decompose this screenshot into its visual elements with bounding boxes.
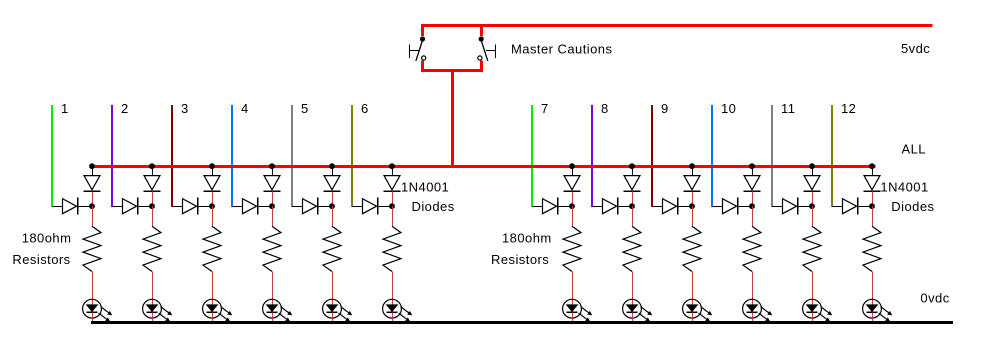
wire cathode lead col 9: [692, 191, 694, 206]
wire anode col 3: [212, 166, 214, 176]
wire led-to-0vdc col 2: [152, 312, 154, 322]
svg-text:2: 2: [121, 101, 129, 116]
wire node-to-resistor col 6: [392, 206, 394, 226]
wire anode col 11: [812, 166, 814, 176]
svg-text:5: 5: [301, 101, 309, 116]
wire cathode lead col 8: [632, 191, 634, 206]
wire led-to-0vdc col 12: [872, 312, 874, 322]
wire input-to-diode col 12: [832, 206, 843, 208]
wire led-to-0vdc col 8: [632, 312, 634, 322]
wire input-to-diode col 10: [712, 206, 723, 208]
wire anode col 7: [572, 166, 574, 176]
wire SW2 bottom stub: [480, 60, 483, 72]
svg-text:1: 1: [61, 101, 69, 116]
wire led-to-0vdc col 10: [752, 312, 754, 322]
junction node dot col 4: [269, 203, 275, 209]
label 1N4001 (left bank): [401, 179, 449, 194]
wire led-to-0vdc col 9: [692, 312, 694, 322]
diode 1N4001 D11b (horizontal): [783, 198, 813, 215]
diode 1N4001 D3b (horizontal): [183, 198, 213, 215]
junction bus dot col 2: [149, 163, 155, 169]
wire input 4 (colored): [231, 105, 233, 207]
label Master Cautions: [511, 41, 612, 56]
svg-text:5vdc: 5vdc: [901, 41, 930, 56]
wire SW2 top stub: [480, 24, 483, 36]
LED LED3: [203, 299, 222, 318]
junction bus dot col 10: [749, 163, 755, 169]
wire input 3 (colored): [171, 105, 173, 207]
wire node-to-resistor col 1: [92, 206, 94, 226]
LED LED12: [863, 299, 882, 318]
wire led-to-0vdc col 3: [212, 312, 214, 322]
diode 1N4001 D8b (horizontal): [603, 198, 633, 215]
wire node-to-resistor col 9: [692, 206, 694, 226]
svg-text:0vdc: 0vdc: [920, 291, 949, 306]
node label 10: [721, 101, 736, 116]
wire input 5 (colored): [291, 105, 293, 207]
junction node dot col 2: [149, 203, 155, 209]
wire anode col 4: [272, 166, 274, 176]
wire input-to-diode col 2: [112, 206, 123, 208]
node label 4: [241, 101, 249, 116]
wire cathode lead col 10: [752, 191, 754, 206]
label Diodes (right bank): [891, 199, 934, 214]
wire input 10 (colored): [711, 105, 713, 207]
wire cathode lead col 5: [332, 191, 334, 206]
node ALL label: [902, 141, 926, 156]
wire node-to-resistor col 3: [212, 206, 214, 226]
diode 1N4001 D11a (vertical): [804, 176, 821, 192]
resistor 180ohm R7: [563, 226, 581, 271]
wire cathode lead col 7: [572, 191, 574, 206]
label Resistors (left bank): [12, 252, 70, 267]
wire resistor-to-led col 11: [812, 272, 814, 305]
LED arrows col 6: [399, 307, 413, 322]
svg-text:12: 12: [841, 101, 856, 116]
wire anode col 9: [692, 166, 694, 176]
wire led-to-0vdc col 6: [392, 312, 394, 322]
diode 1N4001 D8a (vertical): [624, 176, 641, 192]
label Resistors (right bank): [491, 252, 549, 267]
LED arrows col 5: [339, 307, 353, 322]
wire input 6 (colored): [351, 105, 353, 207]
LED arrows col 4: [279, 307, 293, 322]
svg-text:180ohm: 180ohm: [22, 231, 72, 246]
wire led-to-0vdc col 4: [272, 312, 274, 322]
wire input-to-diode col 3: [172, 206, 183, 208]
wire node-to-resistor col 2: [152, 206, 154, 226]
wire resistor-to-led col 9: [692, 272, 694, 305]
wire node-to-resistor col 4: [272, 206, 274, 226]
diode 1N4001 D9b (horizontal): [663, 198, 693, 215]
wire ALL bus (red): [91, 165, 876, 168]
wire cathode lead col 4: [272, 191, 274, 206]
junction bus dot col 8: [629, 163, 635, 169]
wire node-to-resistor col 10: [752, 206, 754, 226]
junction bus dot col 3: [209, 163, 215, 169]
wire input 12 (colored): [831, 105, 833, 207]
LED LED5: [323, 299, 342, 318]
node label 12: [841, 101, 856, 116]
diode 1N4001 D5b (horizontal): [303, 198, 333, 215]
wire switch bottom connector: [421, 69, 483, 72]
wire anode col 8: [632, 166, 634, 176]
wire input 9 (colored): [651, 105, 653, 207]
diode 1N4001 D12a (vertical): [864, 176, 881, 192]
junction bus dot col 4: [269, 163, 275, 169]
wire cathode lead col 2: [152, 191, 154, 206]
resistor 180ohm R8: [623, 226, 641, 271]
svg-text:1N4001: 1N4001: [401, 179, 449, 194]
junction node dot col 11: [809, 203, 815, 209]
wire input-to-diode col 6: [352, 206, 363, 208]
svg-text:Resistors: Resistors: [12, 252, 70, 267]
LED arrows col 3: [219, 307, 233, 322]
resistor 180ohm R3: [203, 226, 221, 271]
wire input-to-diode col 8: [592, 206, 603, 208]
junction bus dot col 1: [89, 163, 95, 169]
junction node dot col 9: [689, 203, 695, 209]
wire input 1 (colored): [51, 105, 53, 207]
junction node dot col 12: [869, 203, 875, 209]
wire led-to-0vdc col 1: [92, 312, 94, 322]
node label 11: [781, 101, 795, 116]
junction node dot col 6: [389, 203, 395, 209]
diode 1N4001 D7b (horizontal): [543, 198, 573, 215]
wire node-to-resistor col 11: [812, 206, 814, 226]
wire anode col 5: [332, 166, 334, 176]
wire input 8 (colored): [591, 105, 593, 207]
wire input-to-diode col 5: [292, 206, 303, 208]
resistor 180ohm R9: [683, 226, 701, 271]
diode 1N4001 D1b (horizontal): [63, 198, 93, 215]
diode 1N4001 D6b (horizontal): [363, 198, 393, 215]
junction bus dot col 6: [389, 163, 395, 169]
node label 9: [661, 101, 669, 116]
junction SW1 top contact dot: [420, 36, 425, 41]
diode 1N4001 D12b (horizontal): [843, 198, 873, 215]
wire led-to-0vdc col 11: [812, 312, 814, 322]
wire led-to-0vdc col 7: [572, 312, 574, 322]
wire resistor-to-led col 4: [272, 272, 274, 305]
wire resistor-to-led col 12: [872, 272, 874, 305]
diode 1N4001 D2a (vertical): [144, 176, 161, 192]
resistor 180ohm R1: [83, 226, 101, 271]
junction bus dot col 5: [329, 163, 335, 169]
resistor 180ohm R12: [863, 226, 881, 271]
diode 1N4001 D10b (horizontal): [723, 198, 753, 215]
resistor 180ohm R2: [143, 226, 161, 271]
diode 1N4001 D1a (vertical): [84, 176, 101, 192]
wire resistor-to-led col 7: [572, 272, 574, 305]
node label 8: [601, 101, 609, 116]
svg-text:Master Cautions: Master Cautions: [511, 41, 612, 56]
svg-text:11: 11: [781, 101, 795, 116]
LED arrows col 12: [879, 307, 893, 322]
label Diodes (left bank): [412, 199, 455, 214]
node label 5: [301, 101, 309, 116]
junction node dot col 1: [89, 203, 95, 209]
diode 1N4001 D4a (vertical): [264, 176, 281, 192]
wire cathode lead col 1: [92, 191, 94, 206]
node label 1: [61, 101, 69, 116]
wire node-to-resistor col 5: [332, 206, 334, 226]
wire input-to-diode col 4: [232, 206, 243, 208]
wire resistor-to-led col 1: [92, 272, 94, 305]
LED arrows col 1: [99, 307, 113, 322]
LED LED2: [143, 299, 162, 318]
LED LED9: [683, 299, 702, 318]
diode 1N4001 D9a (vertical): [684, 176, 701, 192]
wire anode col 6: [392, 166, 394, 176]
wire resistor-to-led col 8: [632, 272, 634, 305]
LED LED7: [563, 299, 582, 318]
wire resistor-to-led col 5: [332, 272, 334, 305]
wire resistor-to-led col 10: [752, 272, 754, 305]
svg-text:Resistors: Resistors: [491, 252, 549, 267]
LED LED8: [623, 299, 642, 318]
node label 7: [541, 101, 549, 116]
LED LED6: [383, 299, 402, 318]
svg-text:Diodes: Diodes: [412, 199, 455, 214]
svg-text:4: 4: [241, 101, 249, 116]
label 180ohm (left bank): [22, 231, 72, 246]
junction node dot col 10: [749, 203, 755, 209]
svg-text:7: 7: [541, 101, 549, 116]
wire input 2 (colored): [111, 105, 113, 207]
svg-text:3: 3: [181, 101, 189, 116]
junction node dot col 3: [209, 203, 215, 209]
svg-text:8: 8: [601, 101, 609, 116]
junction bus dot col 9: [689, 163, 695, 169]
switch SW1 (master caution): [410, 41, 426, 61]
junction node dot col 5: [329, 203, 335, 209]
switch SW2 (master caution): [478, 41, 496, 61]
wire SW1 bottom stub: [421, 60, 424, 72]
LED arrows col 2: [159, 307, 173, 322]
diode 1N4001 D10a (vertical): [744, 176, 761, 192]
node label 3: [181, 101, 189, 116]
junction SW2 top contact dot: [479, 36, 484, 41]
wire input 11 (colored): [771, 105, 773, 207]
diode 1N4001 D5a (vertical): [324, 176, 341, 192]
junction bus dot col 7: [569, 163, 575, 169]
diode 1N4001 D2b (horizontal): [123, 198, 153, 215]
wire anode col 12: [872, 166, 874, 176]
LED LED10: [743, 299, 762, 318]
wire anode col 10: [752, 166, 754, 176]
wire input-to-diode col 9: [652, 206, 663, 208]
wire center drop to bus: [451, 69, 454, 168]
svg-text:9: 9: [661, 101, 669, 116]
wire cathode lead col 6: [392, 191, 394, 206]
resistor 180ohm R5: [323, 226, 341, 271]
resistor 180ohm R6: [383, 226, 401, 271]
wire input-to-diode col 1: [52, 206, 63, 208]
diode 1N4001 D3a (vertical): [204, 176, 221, 192]
wire node-to-resistor col 12: [872, 206, 874, 226]
wire led-to-0vdc col 5: [332, 312, 334, 322]
wire resistor-to-led col 6: [392, 272, 394, 305]
diode 1N4001 D4b (horizontal): [243, 198, 273, 215]
node 5vdc label: [901, 41, 930, 56]
svg-text:6: 6: [361, 101, 369, 116]
svg-text:180ohm: 180ohm: [502, 231, 552, 246]
wire input 7 (colored): [531, 105, 533, 207]
wire input-to-diode col 11: [772, 206, 783, 208]
junction bus dot col 12: [869, 163, 875, 169]
junction node dot col 7: [569, 203, 575, 209]
LED arrows col 9: [699, 307, 713, 322]
label 1N4001 (right bank): [880, 179, 928, 194]
wire 0vdc bottom rail: [91, 321, 953, 324]
wire 5vdc top rail: [421, 24, 933, 27]
wire node-to-resistor col 7: [572, 206, 574, 226]
node 0vdc label: [920, 291, 949, 306]
node label 2: [121, 101, 129, 116]
wire SW1 top stub: [421, 24, 424, 36]
svg-text:1N4001: 1N4001: [880, 179, 928, 194]
LED arrows col 11: [819, 307, 833, 322]
svg-text:10: 10: [721, 101, 736, 116]
resistor 180ohm R10: [743, 226, 761, 271]
LED arrows col 10: [759, 307, 773, 322]
junction bus dot col 11: [809, 163, 815, 169]
wire cathode lead col 12: [872, 191, 874, 206]
LED LED11: [803, 299, 822, 318]
wire anode col 2: [152, 166, 154, 176]
svg-text:ALL: ALL: [902, 141, 926, 156]
svg-text:Diodes: Diodes: [891, 199, 934, 214]
resistor 180ohm R4: [263, 226, 281, 271]
wire resistor-to-led col 3: [212, 272, 214, 305]
LED arrows col 7: [579, 307, 593, 322]
wire anode col 1: [92, 166, 94, 176]
wire node-to-resistor col 8: [632, 206, 634, 226]
diode 1N4001 D7a (vertical): [564, 176, 581, 192]
diode 1N4001 D6a (vertical): [384, 176, 401, 192]
LED arrows col 8: [639, 307, 653, 322]
LED LED1: [83, 299, 102, 318]
wire cathode lead col 3: [212, 191, 214, 206]
node label 6: [361, 101, 369, 116]
label 180ohm (right bank): [502, 231, 552, 246]
junction node dot col 8: [629, 203, 635, 209]
resistor 180ohm R11: [803, 226, 821, 271]
wire cathode lead col 11: [812, 191, 814, 206]
wire input-to-diode col 7: [532, 206, 543, 208]
wire resistor-to-led col 2: [152, 272, 154, 305]
LED LED4: [263, 299, 282, 318]
